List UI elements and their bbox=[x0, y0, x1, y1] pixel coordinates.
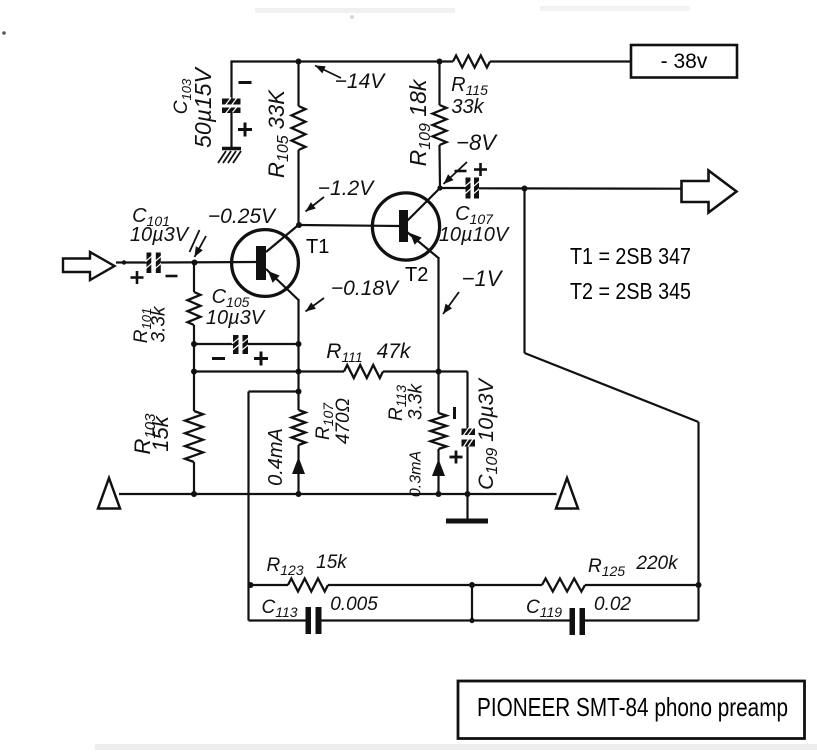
transistor T2 collector lead bbox=[407, 188, 440, 221]
svg-text:R109 18k: R109 18k bbox=[405, 78, 434, 166]
transistor T1 collector lead bbox=[266, 225, 299, 253]
capacitor C113 plates bbox=[306, 607, 312, 634]
C101 pointer line bbox=[190, 230, 200, 252]
transistor T2 emitter arrowhead bbox=[410, 233, 422, 245]
node R101/C105 junction bbox=[191, 341, 197, 347]
resistor R123 zigzag bbox=[288, 579, 328, 592]
node C109/ground junction bbox=[465, 491, 471, 497]
node mid junction top bbox=[469, 582, 475, 588]
wire R107 bottom lead bbox=[297, 445, 299, 494]
node emitter/feedback junction bbox=[296, 389, 302, 395]
wire R125 right lead bbox=[585, 584, 699, 586]
node C105/emitter junction bbox=[296, 341, 302, 347]
wire R105 top lead bbox=[297, 62, 299, 107]
wire C103 top lead bbox=[230, 60, 232, 99]
svg-text:10µ3V: 10µ3V bbox=[206, 307, 266, 329]
resistor R107 zigzag bbox=[292, 410, 306, 445]
svg-text:−1.2V: −1.2V bbox=[318, 177, 375, 200]
svg-text:T1 = 2SB 347: T1 = 2SB 347 bbox=[570, 243, 691, 269]
resistor R125 zigzag bbox=[542, 579, 585, 592]
svg-text:47k: 47k bbox=[377, 340, 412, 363]
title box bbox=[458, 681, 805, 739]
wire middle vertical bbox=[471, 585, 473, 621]
transistor T1 emitter arrowhead bbox=[268, 271, 280, 283]
wire C109 top lead bbox=[466, 372, 468, 430]
C107 minus sign bbox=[455, 170, 467, 173]
resistor R105 zigzag bbox=[292, 106, 306, 150]
svg-text:−0.18V: −0.18V bbox=[331, 277, 400, 300]
svg-text:3.3k: 3.3k bbox=[406, 383, 427, 420]
node T1 collector / R105 / T2 base bbox=[296, 222, 302, 228]
transistor T2 base bar bbox=[399, 210, 408, 242]
node output / feedback junction bbox=[522, 186, 528, 192]
transistor T1 emitter lead bbox=[266, 269, 299, 300]
resistor R103 zigzag bbox=[185, 411, 203, 462]
ground triangle left bbox=[98, 478, 120, 509]
wire ground rail bbox=[119, 493, 557, 495]
capacitor C105 plates bbox=[233, 335, 239, 354]
earth ground symbol bbox=[466, 494, 468, 519]
node R103/R111 junction bbox=[191, 369, 197, 375]
resistor R115 zigzag bbox=[453, 56, 490, 68]
svg-text:3.3k: 3.3k bbox=[149, 305, 170, 342]
svg-text:50µ15V: 50µ15V bbox=[190, 65, 216, 147]
resistor R113 zigzag bbox=[431, 413, 447, 449]
wire T2 emitter vertical bbox=[437, 257, 439, 372]
C101 plus sign bbox=[131, 276, 144, 279]
current arrow 0.4mA bbox=[292, 457, 305, 474]
svg-text:−0.25V: −0.25V bbox=[208, 205, 277, 228]
node input wire dot bbox=[122, 260, 126, 264]
capacitor C107 plates bbox=[466, 178, 471, 199]
node T2 emitter/R113 junction bbox=[436, 369, 442, 375]
wire R101 top lead bbox=[193, 263, 195, 293]
node C113-R123 left junction bbox=[248, 582, 254, 588]
capacitor C101 plates bbox=[147, 253, 152, 274]
wire R113 bottom lead bbox=[437, 449, 439, 494]
node R105/top-rail junction bbox=[296, 59, 302, 65]
node T2 collector / R109 / C107 bbox=[437, 185, 442, 190]
resistor R111 zigzag bbox=[344, 365, 383, 378]
svg-text:R105 33K: R105 33K bbox=[264, 89, 292, 178]
C105 plus sign bbox=[254, 357, 268, 360]
svg-text:−8V: −8V bbox=[456, 130, 498, 155]
C101 minus sign bbox=[166, 275, 178, 278]
node mid junction bottom bbox=[469, 618, 474, 623]
wire R101 bottom lead bbox=[193, 325, 195, 344]
svg-text:10µ10V: 10µ10V bbox=[439, 224, 510, 246]
svg-text:220k: 220k bbox=[635, 553, 679, 574]
svg-text:15k: 15k bbox=[148, 415, 173, 451]
-0.18V pointer arrow bbox=[306, 298, 325, 312]
svg-text:−14V: −14V bbox=[335, 70, 387, 93]
svg-text:15k: 15k bbox=[316, 552, 348, 573]
-0.25V pointer arrow bbox=[195, 236, 207, 257]
svg-text:0.02: 0.02 bbox=[594, 594, 631, 615]
wire top supply rail left segment bbox=[232, 60, 454, 62]
wire R123 right lead bbox=[328, 584, 472, 586]
wire C113 left lead bbox=[249, 619, 307, 621]
C103 plus sign bbox=[238, 128, 252, 131]
C109 minus sign bbox=[453, 407, 456, 419]
capacitor C103 plates bbox=[222, 99, 241, 105]
scan artifact dot top-left bbox=[2, 31, 6, 35]
C103 minus sign bbox=[239, 81, 252, 84]
wire T1 collector to T2 base bbox=[299, 225, 399, 226]
C107 plus sign bbox=[474, 168, 487, 171]
svg-text:0.4mA: 0.4mA bbox=[265, 428, 287, 486]
transistor T1 base bar bbox=[256, 246, 266, 280]
ground triangle right bbox=[556, 478, 578, 509]
wire output feedback vertical upper bbox=[523, 189, 525, 354]
svg-text:- 38v: - 38v bbox=[661, 50, 708, 73]
wire R101 to C105 bbox=[194, 343, 233, 345]
output signal arrow bbox=[682, 171, 737, 213]
wire output feedback diagonal bbox=[525, 353, 699, 422]
wire top supply rail right segment bbox=[490, 60, 631, 62]
node R125/right junction bbox=[696, 582, 702, 588]
resistor R101 zigzag bbox=[188, 292, 201, 325]
wire R111 right segment bbox=[383, 370, 468, 372]
wire R109 bottom lead bbox=[438, 145, 441, 188]
current arrow 0.3mA bbox=[432, 459, 445, 476]
capacitor C119 plates bbox=[570, 608, 576, 635]
wire T1 emitter vertical bbox=[297, 299, 299, 410]
wire R103 top lead bbox=[193, 344, 195, 411]
wire R111 left segment bbox=[194, 370, 344, 372]
wire R113 top lead bbox=[437, 372, 439, 414]
wire C113 right lead bbox=[322, 619, 473, 621]
wire R109 top lead bbox=[438, 62, 440, 106]
wire C103 bottom lead bbox=[230, 112, 232, 148]
svg-text:T2 = 2SB 345: T2 = 2SB 345 bbox=[570, 278, 691, 304]
wire C101 to base node bbox=[161, 261, 257, 264]
node emitter/R111 junction bbox=[296, 369, 302, 375]
node R109/top-rail junction bbox=[437, 59, 443, 65]
wire feedback horizontal bbox=[249, 390, 299, 392]
wire T2 collector to C107 bbox=[440, 187, 466, 189]
svg-text:470Ω: 470Ω bbox=[333, 398, 354, 444]
wire R103 bottom lead bbox=[193, 462, 195, 494]
wire input to C101 bbox=[116, 261, 147, 263]
wire R105 bottom lead bbox=[297, 150, 299, 225]
svg-text:10µ3V: 10µ3V bbox=[130, 224, 190, 246]
input signal arrow bbox=[63, 252, 115, 280]
svg-text:33k: 33k bbox=[451, 96, 484, 118]
capacitor C109 plates bbox=[462, 429, 476, 436]
wire C119 right lead bbox=[585, 619, 699, 621]
wire C109 bottom lead bbox=[466, 447, 468, 495]
svg-text:T1: T1 bbox=[306, 236, 329, 258]
-8V pointer arrow bbox=[444, 162, 468, 184]
C109 plus sign bbox=[450, 456, 463, 459]
-14V pointer arrow bbox=[315, 66, 341, 79]
node R103/ground junction bbox=[191, 491, 197, 497]
wire C105 to emitter bbox=[248, 343, 299, 345]
node C101/R101/base junction bbox=[192, 260, 198, 266]
-38v supply box bbox=[631, 45, 737, 78]
wire C119 left lead bbox=[472, 619, 570, 621]
node R107/ground junction bbox=[296, 491, 302, 497]
C105 minus sign bbox=[212, 357, 225, 360]
svg-text:0.005: 0.005 bbox=[330, 594, 378, 615]
svg-text:−1V: −1V bbox=[462, 266, 504, 291]
wire R123 left lead bbox=[249, 584, 289, 586]
-1V pointer arrow bbox=[443, 292, 459, 314]
scan artifact smudge top bbox=[255, 8, 455, 13]
svg-text:PIONEER SMT-84 phono preamp: PIONEER SMT-84 phono preamp bbox=[477, 692, 788, 722]
transistor T2 emitter lead bbox=[407, 232, 439, 258]
wire output feedback vertical right bbox=[697, 422, 699, 621]
wire feedback vertical bbox=[247, 392, 249, 621]
node R113/ground junction bbox=[436, 491, 442, 497]
transistor T1 circle bbox=[232, 230, 299, 297]
-1.2V pointer arrow bbox=[306, 197, 325, 212]
svg-text:0.3mA: 0.3mA bbox=[408, 451, 425, 497]
resistor R109 zigzag bbox=[433, 105, 447, 145]
wire C107 to output bbox=[479, 187, 682, 190]
scan artifact bottom strip bbox=[95, 744, 817, 750]
resistor R125 left lead bbox=[472, 584, 542, 586]
chassis ground below C103 bbox=[222, 147, 241, 151]
transistor T2 circle bbox=[372, 193, 439, 260]
svg-text:T2: T2 bbox=[405, 264, 428, 286]
